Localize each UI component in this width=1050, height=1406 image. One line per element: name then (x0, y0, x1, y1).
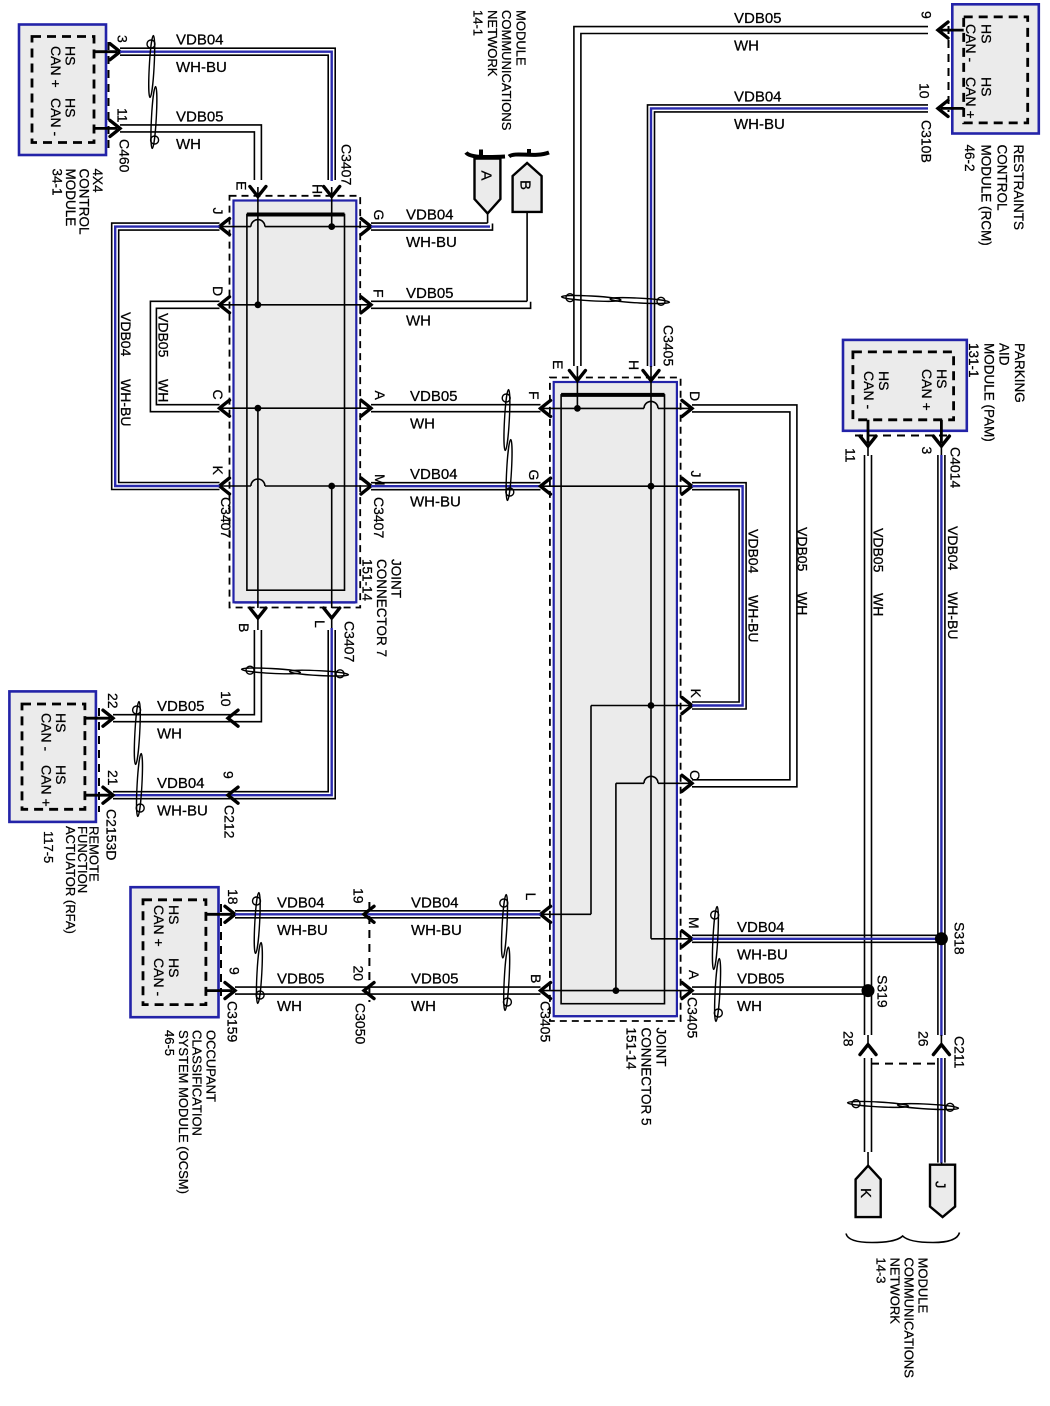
wire VDB04 WH-BU from JC7 pin G to connector A (371, 222, 488, 224)
svg-text:J: J (688, 471, 704, 478)
wire VDB04 WH-BU from PAM pin 3 down to C211 pin 26 (937, 455, 939, 1035)
JC5 pin M arrow (682, 931, 692, 947)
JC7 pin M arrow (361, 478, 371, 494)
wire VDB04 WH-BU loop JC7 J to K (112, 223, 220, 489)
JC7 pin G arrow (361, 219, 371, 235)
module Parking Aid Module (PAM) 131-1 (843, 340, 967, 431)
svg-text:VDB05: VDB05 (156, 313, 172, 358)
RFA inner dashed box (22, 704, 85, 809)
RFA pin 21 arrow (103, 787, 113, 803)
svg-text:A: A (372, 391, 388, 401)
RCM pin 9 stub (941, 29, 964, 32)
JC7 row D-F (220, 304, 372, 306)
JC5 pin B arrow (541, 983, 551, 999)
JC7 row C-A (220, 407, 372, 409)
off-page connector K (856, 1166, 881, 1217)
JC5 pin A arrow (682, 983, 692, 999)
twisted pair symbol at C2153D (133, 701, 145, 816)
svg-text:21: 21 (105, 770, 121, 786)
wire VDB05 WH from JC7 pin F to connector B (371, 300, 527, 302)
svg-text:22: 22 (105, 693, 121, 709)
JC7 internal wire C-A row to pin B (257, 408, 259, 608)
svg-text:28: 28 (841, 1031, 857, 1047)
svg-text:C3407: C3407 (342, 621, 358, 662)
svg-text:VDB05: VDB05 (411, 971, 459, 988)
RCM inner dashed box (964, 17, 1028, 123)
joint connector 5 box (554, 382, 677, 1016)
svg-text:WH: WH (277, 998, 302, 1015)
svg-text:VDB05: VDB05 (795, 527, 811, 572)
svg-text:VDB04: VDB04 (737, 919, 785, 936)
connector face C310B dashed line (948, 26, 950, 112)
C211 pin 28 arrow (860, 1045, 876, 1055)
RCM pin 10 stub (941, 107, 964, 110)
JC5 pin D arrow (682, 400, 692, 416)
svg-text:VDB05: VDB05 (406, 285, 454, 302)
svg-text:C460: C460 (117, 139, 133, 173)
svg-text:VDB04: VDB04 (410, 466, 458, 483)
svg-text:VDB04: VDB04 (277, 894, 325, 911)
JC7 pin H arrow (324, 187, 340, 197)
connector face C4014 dashed line (855, 435, 952, 437)
svg-text:J: J (932, 1181, 949, 1189)
off-page connector J (930, 1165, 955, 1217)
svg-text:11: 11 (115, 108, 131, 123)
JC5 row G-J (541, 485, 693, 487)
svg-text:VDB04: VDB04 (945, 526, 961, 571)
svg-text:M: M (372, 474, 388, 486)
twisted pair symbol at C460 (147, 35, 159, 148)
svg-text:S319: S319 (875, 975, 891, 1008)
JC7 internal wire pin H to J-G row (331, 187, 333, 227)
svg-text:C3405: C3405 (661, 325, 677, 366)
C212 pin 9 arrow (228, 787, 238, 803)
svg-text:26: 26 (916, 1031, 932, 1047)
wire VDB04 WH-BU from C211 pin 26 to connector J (937, 1058, 939, 1163)
module Remote Function Actuator (RFA) 117-5 (9, 691, 96, 822)
connector face C460 dashed line (108, 42, 110, 150)
single lead to JC5 H (650, 366, 652, 380)
tail wire of connector A (487, 213, 489, 223)
svg-text:WH-BU: WH-BU (746, 595, 762, 642)
network bus bar (466, 153, 505, 158)
splice S319 (862, 984, 875, 997)
JC5 dashed outline (550, 378, 681, 1022)
svg-text:VDB04: VDB04 (406, 207, 454, 224)
junction H/J-G (328, 223, 335, 230)
svg-text:WH: WH (737, 998, 762, 1015)
JC7 pin J arrow (220, 219, 230, 235)
wire VDB04 WH-BU from RCM pin 10 to JC5 pin H (648, 105, 929, 366)
JC7 row J-G (220, 226, 372, 228)
svg-text:C2153D: C2153D (104, 809, 120, 860)
svg-text:WH: WH (410, 416, 435, 433)
svg-text:18: 18 (225, 889, 241, 905)
svg-text:WH-BU: WH-BU (157, 803, 208, 820)
svg-text:D: D (687, 391, 703, 401)
svg-text:10: 10 (218, 691, 234, 707)
JC5 internal wire K row to L row (590, 706, 592, 915)
svg-text:VDB05: VDB05 (737, 971, 785, 988)
single lead to C211 28 (867, 1035, 869, 1045)
hop of F-D row over H bus line (644, 401, 658, 408)
wire VDB04 WH-BU from JC5 pin M to splice S318 (692, 934, 945, 936)
svg-text:VDB05: VDB05 (410, 388, 458, 405)
junction C/B-A row (613, 987, 620, 994)
module Occupant Classification System Module (OCSM) 46-5 (131, 887, 219, 1017)
OCSM pin 18 stub (206, 913, 232, 916)
PAM pin 11 arrow (860, 436, 876, 446)
C211 pin 26 arrow (933, 1045, 949, 1055)
svg-text:F: F (371, 289, 387, 298)
svg-text:117-5: 117-5 (41, 831, 56, 863)
svg-text:VDB04: VDB04 (411, 894, 459, 911)
svg-text:B: B (528, 974, 544, 983)
twisted pair symbol at C211 (847, 1100, 958, 1112)
PAM pin 11 lead (867, 446, 869, 456)
svg-text:WH-BU: WH-BU (945, 592, 961, 639)
JC5 inner bus rectangle (561, 395, 664, 1004)
svg-text:10: 10 (917, 83, 933, 99)
pin 11 arrow (110, 120, 120, 136)
JC5 pin K arrow (682, 698, 692, 714)
svg-text:C3405: C3405 (538, 1001, 554, 1042)
svg-text:VDB04: VDB04 (118, 312, 134, 357)
twisted pair symbol below JC7 (241, 666, 348, 678)
wire VDB04 WH-BU from OCSM pin 18 to JC5 pin L (235, 910, 541, 912)
svg-text:VDB04: VDB04 (734, 89, 782, 106)
svg-text:S318: S318 (952, 922, 968, 955)
pin 11 stub wire (94, 127, 117, 130)
JC5 pin F arrow (541, 400, 551, 416)
twisted pair symbol at C3405 (right) (711, 906, 723, 1021)
PAM pin 3 stub (940, 420, 943, 443)
wire VDB04 WH-BU from JC7 pin L to C212 pin 9 (331, 618, 333, 630)
module 4X4 Control Module 34-1 (19, 25, 106, 156)
wire VDB05 WH from RCM pin 9 to JC5 pin E (574, 27, 928, 366)
JC7 pin D arrow (220, 297, 230, 313)
wire VDB05 WH from JC5 pin A to splice S319 (692, 986, 871, 988)
RFA pin 22 stub (85, 717, 110, 720)
hop of C row over H-M bus line (644, 776, 658, 783)
JC7 row K-M (220, 485, 372, 487)
svg-text:C3407: C3407 (371, 497, 387, 538)
JC7 pin A arrow (361, 400, 371, 416)
RFA pin 22 arrow (103, 710, 113, 726)
RCM pin 9 arrow (938, 22, 948, 38)
svg-text:WH: WH (157, 726, 182, 743)
svg-text:C3407: C3407 (339, 144, 355, 185)
wire VDB04 WH-BU from 4X4 pin 3 to JC7 pin H (120, 48, 335, 180)
svg-text:VDB05: VDB05 (157, 698, 205, 715)
twisted pair symbol at C3405 (top) (561, 294, 669, 306)
4X4 inner dashed box (32, 37, 94, 143)
svg-text:WH-BU: WH-BU (176, 59, 227, 76)
junction L/K-M (328, 483, 335, 490)
svg-text:WH-BU: WH-BU (737, 946, 788, 963)
hop of J-G row over E line (251, 220, 265, 227)
C3050 pin 19 arrow (364, 906, 374, 922)
svg-text:20: 20 (351, 966, 367, 982)
svg-text:WH-BU: WH-BU (410, 494, 461, 511)
JC7 pin F arrow (361, 297, 371, 313)
svg-text:K: K (857, 1188, 874, 1198)
JC7 inner bus rectangle (247, 215, 345, 591)
pin 3 stub wire (94, 50, 117, 53)
svg-text:H: H (626, 360, 642, 370)
svg-text:C: C (210, 390, 226, 400)
svg-text:WH-BU: WH-BU (118, 379, 134, 426)
svg-text:B: B (517, 180, 534, 190)
tail wire of connector B (526, 212, 528, 301)
svg-text:WH: WH (734, 38, 759, 55)
connector C3050 dashed face line (368, 902, 370, 1002)
wire VDB05 WH from OCSM pin 9 to JC5 pin B (235, 986, 541, 988)
svg-text:WH: WH (871, 593, 887, 616)
svg-text:WH-BU: WH-BU (734, 116, 785, 133)
joint connector 7 box (234, 201, 357, 603)
JC5 internal bus wire pin H to M row (650, 381, 652, 939)
PAM pin 3 arrow (933, 436, 949, 446)
wire VDB05 WH from JC7 pin A to JC5 pin F (371, 404, 541, 406)
JC7 pin E arrow (250, 187, 266, 197)
JC5 bottom blue thick edge (555, 1015, 676, 1017)
single lead to JC5 E (576, 366, 578, 380)
JC5 inner bus bar (thick top) (561, 393, 664, 397)
JC5 pin J arrow (682, 478, 692, 494)
JC7 pin L arrow (324, 608, 340, 618)
brace for network 14-3 (846, 1233, 960, 1243)
OCSM pin 18 arrow (225, 906, 235, 922)
twisted pair symbol at C3405 (bottom) (500, 894, 512, 1010)
wire VDB05 WH loop JC5 D to C (692, 405, 797, 787)
JC5 row M (651, 938, 692, 940)
C212 pin 10 arrow (228, 710, 238, 726)
JC5 pin H arrow (643, 371, 659, 381)
single lead to C211 26 (940, 1035, 942, 1045)
wire VDB05 WH from C211 pin 28 to connector K (864, 1058, 866, 1152)
junction B/C-A (255, 405, 262, 412)
twisted pair symbol between JC7 and JC5 (502, 389, 514, 500)
svg-text:VDB04: VDB04 (746, 529, 762, 574)
bus bar tick 2 (527, 149, 531, 155)
pin 3 arrow (110, 44, 120, 60)
svg-text:WH: WH (406, 312, 431, 329)
JC5 internal wire C row to B-A row (615, 783, 617, 990)
svg-text:C3050: C3050 (353, 1003, 369, 1044)
bus bar tick 1 (479, 150, 483, 156)
svg-text:VDB04: VDB04 (157, 775, 205, 792)
svg-text:WH-BU: WH-BU (277, 922, 328, 939)
svg-text:M: M (686, 917, 702, 929)
JC7 inner bus bar (thick top) (247, 213, 345, 217)
svg-text:K: K (210, 466, 226, 476)
wire VDB04 WH-BU loop JC5 J to K (692, 483, 746, 709)
svg-text:VDB05: VDB05 (277, 971, 325, 988)
svg-text:11: 11 (843, 448, 859, 463)
svg-text:F: F (526, 391, 542, 400)
JC7 pin B arrow (250, 608, 266, 618)
JC7 pin C arrow (220, 400, 230, 416)
svg-text:VDB05: VDB05 (734, 10, 782, 27)
svg-text:G: G (526, 470, 542, 481)
svg-text:VDB05: VDB05 (176, 108, 224, 125)
JC5 row L (541, 913, 592, 915)
svg-text:WH-BU: WH-BU (411, 922, 462, 939)
svg-text:9: 9 (919, 11, 935, 19)
svg-text:A: A (478, 171, 495, 181)
svg-text:C: C (687, 770, 703, 780)
svg-text:C3407: C3407 (218, 497, 234, 538)
wire VDB05 WH from PAM pin 11 down to C211 pin 28 (864, 455, 866, 1035)
svg-text:J: J (210, 208, 226, 215)
junction E/D-F (255, 301, 262, 308)
JC7 internal wire pin E to D-F row (257, 187, 259, 305)
svg-text:L: L (523, 893, 539, 901)
junction E/F-D (574, 405, 581, 412)
JC7 internal wire K-M row to pin L (331, 486, 333, 608)
svg-text:C212: C212 (222, 805, 238, 839)
wire VDB05 WH loop JC7 D to C (150, 301, 219, 411)
JC5 row K (591, 705, 692, 707)
off-page connector B (513, 163, 542, 212)
svg-text:WH: WH (795, 592, 811, 615)
OCSM inner dashed box (143, 900, 206, 1005)
PAM inner dashed box (853, 352, 954, 420)
svg-text:C211: C211 (952, 1036, 968, 1069)
svg-text:H: H (310, 184, 326, 194)
C3050 pin 20 arrow (364, 983, 374, 999)
svg-text:G: G (371, 210, 387, 221)
svg-text:C310B: C310B (919, 120, 935, 163)
off-page connector A (475, 159, 501, 214)
JC5 row B-A (541, 990, 693, 992)
OCSM pin 9 stub (206, 989, 232, 992)
PAM pin 3 lead (940, 446, 942, 456)
svg-text:D: D (210, 286, 226, 296)
JC5 row F-D (541, 407, 693, 409)
svg-text:C3159: C3159 (225, 1001, 241, 1042)
svg-text:19: 19 (351, 888, 367, 904)
JC5 pin E arrow (569, 371, 585, 381)
svg-text:9: 9 (221, 771, 237, 779)
svg-text:WH-BU: WH-BU (406, 234, 457, 251)
svg-text:L: L (312, 620, 328, 628)
svg-text:C3405: C3405 (685, 997, 701, 1038)
svg-text:K: K (688, 689, 704, 699)
svg-text:E: E (550, 360, 566, 369)
PAM pin 11 stub (867, 420, 870, 443)
wire VDB05 WH from JC7 pin B to C212 pin 10 (257, 618, 259, 630)
svg-text:VDB05: VDB05 (871, 528, 887, 573)
module Restraints Control Module (RCM) 46-2 (952, 4, 1039, 133)
connector face C2153D dashed line (98, 708, 100, 812)
svg-text:WH: WH (176, 136, 201, 153)
JC5 row C (616, 782, 644, 784)
junction H bus/G-J (648, 483, 655, 490)
RCM pin 10 arrow (938, 100, 948, 116)
svg-text:WH: WH (411, 998, 436, 1015)
svg-text:3: 3 (115, 35, 131, 43)
svg-text:WH: WH (156, 379, 172, 402)
JC7 pin K arrow (220, 478, 230, 494)
svg-text:E: E (234, 181, 250, 190)
twisted pair symbol at C3159 (253, 892, 265, 1003)
svg-text:VDB04: VDB04 (176, 32, 224, 49)
OCSM pin 9 arrow (225, 983, 235, 999)
splice S318 (935, 932, 948, 945)
JC5 pin L arrow (541, 906, 551, 922)
svg-text:B: B (236, 623, 252, 632)
junction H bus/K row (648, 702, 655, 709)
JC5 pin C arrow (682, 775, 692, 791)
wire VDB05 WH from 4X4 pin 11 to JC7 pin E (120, 125, 261, 180)
svg-text:C4014: C4014 (948, 447, 964, 488)
JC7 bottom blue thick edge (235, 601, 356, 603)
svg-text:3: 3 (919, 447, 935, 455)
JC7 dashed outline (230, 196, 361, 608)
connector face C3159 dashed line (220, 904, 222, 1000)
svg-text:9: 9 (227, 967, 243, 975)
hop of K-M row over B line (251, 479, 265, 486)
connector C211 dashed face line (871, 1063, 938, 1065)
JC5 pin G arrow (541, 478, 551, 494)
svg-text:A: A (686, 970, 702, 980)
JC5 internal wire pin E to F-D row (576, 381, 578, 408)
wire VDB04 WH-BU from JC7 pin M to JC5 pin G (371, 482, 541, 484)
RFA pin 21 stub (85, 794, 110, 797)
